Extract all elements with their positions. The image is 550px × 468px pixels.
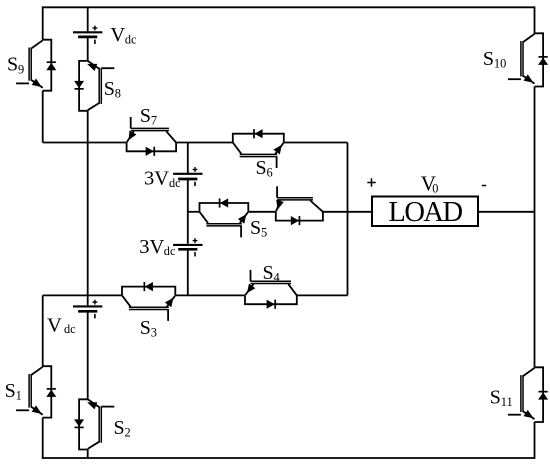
svg-text:S: S [256,157,267,179]
svg-text:11: 11 [501,395,513,409]
svg-text:V: V [47,314,62,336]
svg-text:S: S [7,54,18,76]
svg-text:2: 2 [125,426,131,440]
svg-text:7: 7 [151,114,157,128]
svg-text:S: S [140,317,151,339]
svg-text:dc: dc [125,33,137,47]
svg-text:1: 1 [16,389,22,403]
svg-text:V: V [110,24,125,46]
svg-text:6: 6 [267,166,273,180]
svg-text:dc: dc [169,176,181,190]
svg-text:dc: dc [64,322,76,336]
svg-text:4: 4 [274,271,280,285]
svg-text:8: 8 [115,87,121,101]
svg-text:0: 0 [432,182,438,196]
svg-text:S: S [263,262,274,284]
svg-text:S: S [483,48,494,70]
svg-text:3V: 3V [144,168,169,190]
svg-text:S: S [490,386,501,408]
svg-text:S: S [140,105,151,127]
svg-text:S: S [104,78,115,100]
svg-text:dc: dc [164,244,176,258]
svg-text:LOAD: LOAD [388,197,462,228]
svg-text:9: 9 [18,62,24,76]
svg-text:5: 5 [261,226,267,240]
svg-text:S: S [114,417,125,439]
svg-text:10: 10 [494,57,506,71]
svg-text:S: S [5,380,16,402]
svg-text:3: 3 [151,326,157,340]
svg-text:3V: 3V [139,236,164,258]
svg-text:S: S [250,217,261,239]
